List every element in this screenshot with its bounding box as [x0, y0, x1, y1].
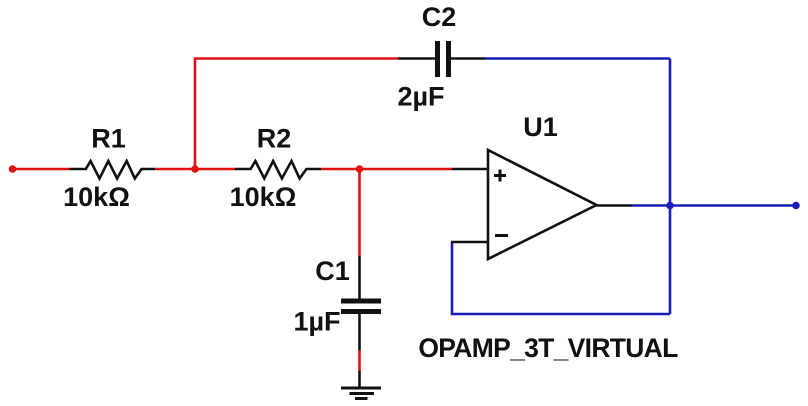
svg-text:U1: U1	[523, 112, 558, 142]
svg-text:C2: C2	[422, 2, 457, 32]
svg-text:10kΩ: 10kΩ	[63, 182, 130, 212]
svg-text:C1: C1	[315, 256, 350, 286]
svg-text:R2: R2	[257, 124, 292, 154]
svg-text:2µF: 2µF	[397, 82, 444, 112]
svg-text:1µF: 1µF	[293, 307, 340, 337]
svg-text:R1: R1	[91, 124, 126, 154]
svg-text:OPAMP_3T_VIRTUAL: OPAMP_3T_VIRTUAL	[418, 333, 678, 363]
svg-text:10kΩ: 10kΩ	[230, 182, 297, 212]
